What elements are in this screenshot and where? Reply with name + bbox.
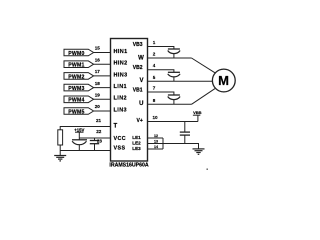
svg-text:+15V: +15V <box>74 127 84 132</box>
svg-text:M: M <box>218 73 229 88</box>
wire LE2 pin13 <box>148 143 164 145</box>
capacitor C3 bootstrap VB1-U <box>168 94 180 96</box>
capacitor C6 ceramic VCC-VSS <box>94 138 96 141</box>
svg-text:VB1: VB1 <box>133 87 143 93</box>
svg-text:8: 8 <box>153 98 156 103</box>
svg-text:T: T <box>114 123 118 129</box>
wire PWM0 to pin15 <box>94 52 111 54</box>
svg-text:PWM4: PWM4 <box>68 98 84 104</box>
svg-text:LIN1: LIN1 <box>114 84 128 90</box>
wire LE tie bracket <box>162 138 164 149</box>
capacitor C2 bootstrap VB2-V <box>168 71 180 73</box>
wire V+ pin10 <box>148 121 198 123</box>
svg-text:21: 21 <box>96 118 102 123</box>
wire T pin21 <box>60 127 110 130</box>
svg-text:20: 20 <box>95 104 101 109</box>
svg-text:VB2: VB2 <box>133 65 143 71</box>
ground (left) <box>54 155 66 157</box>
wire VB2 pin4 <box>148 70 174 73</box>
wire VB1 pin7 <box>148 92 174 95</box>
ground (right) <box>193 148 205 150</box>
wire U diagonal to motor <box>192 89 216 105</box>
svg-text:LE3: LE3 <box>132 146 141 151</box>
resistor R1 <box>58 130 63 145</box>
svg-text:15: 15 <box>95 46 101 51</box>
svg-text:17: 17 <box>95 69 101 74</box>
flag PWM2 <box>64 73 94 80</box>
wire resistor to ground <box>59 145 61 156</box>
svg-text:LE1: LE1 <box>132 135 141 140</box>
svg-text:13: 13 <box>154 140 158 144</box>
wire VCC pin22 <box>79 137 110 139</box>
svg-text:14: 14 <box>154 145 158 149</box>
svg-text:16: 16 <box>95 57 101 62</box>
wire PWM5 to pin20 <box>94 110 111 112</box>
svg-text:U: U <box>139 101 143 107</box>
svg-text:HIN1: HIN1 <box>114 49 128 55</box>
svg-text:LIN2: LIN2 <box>114 96 128 102</box>
flag PWM3 <box>64 84 94 91</box>
svg-text:PWM0: PWM0 <box>68 51 84 57</box>
svg-text:HIN3: HIN3 <box>114 72 128 78</box>
+15V supply terminal <box>75 131 84 133</box>
svg-text:1: 1 <box>153 40 156 45</box>
wire VB3 pin1 <box>148 47 174 50</box>
svg-text:10: 10 <box>152 115 158 120</box>
svg-text:12: 12 <box>154 134 158 138</box>
VBB supply terminal <box>197 115 199 121</box>
svg-text:7: 7 <box>153 86 156 91</box>
svg-text:V+: V+ <box>137 118 143 124</box>
svg-text:2: 2 <box>153 52 156 57</box>
svg-text:IRAMS16UP60A: IRAMS16UP60A <box>109 162 148 168</box>
flag PWM0 <box>64 49 94 56</box>
svg-text:PWM3: PWM3 <box>68 86 84 92</box>
wire PWM4 to pin19 <box>94 98 111 100</box>
capacitor C1 bootstrap VB3-W <box>168 48 180 50</box>
wire LE3 pin14 <box>148 148 164 150</box>
svg-text:PWM1: PWM1 <box>68 63 84 69</box>
capacitor C4 bus <box>184 122 186 133</box>
flag PWM5 <box>64 108 94 115</box>
motor M1 <box>212 69 235 92</box>
svg-text:VBB: VBB <box>193 110 202 115</box>
svg-text:4: 4 <box>153 63 156 68</box>
wire PWM1 to pin16 <box>94 63 111 65</box>
wire W diagonal to motor <box>192 58 216 73</box>
flag PWM4 <box>64 96 94 103</box>
wire U pin8 <box>148 103 192 105</box>
wire LE1 pin12 <box>148 137 164 139</box>
flag PWM1 <box>64 61 94 68</box>
svg-text:18: 18 <box>95 81 101 86</box>
wire W pin2 <box>148 57 192 59</box>
wire PWM3 to pin18 <box>94 87 111 89</box>
svg-text:5: 5 <box>153 75 156 80</box>
svg-text:19: 19 <box>95 93 101 98</box>
wire VSS pin23 rail <box>60 150 110 152</box>
svg-text:PWM2: PWM2 <box>68 74 84 80</box>
node speck artifact <box>207 169 208 170</box>
capacitor C5 electrolytic on +15V <box>72 139 87 141</box>
svg-text:HIN2: HIN2 <box>114 61 128 67</box>
svg-text:LIN3: LIN3 <box>114 107 128 113</box>
svg-text:VSS: VSS <box>114 146 126 152</box>
svg-text:VB3: VB3 <box>133 42 143 48</box>
wire V pin5 to motor <box>148 80 213 82</box>
svg-text:VCC: VCC <box>114 136 127 142</box>
svg-text:22: 22 <box>96 129 102 134</box>
svg-text:LE2: LE2 <box>132 141 141 146</box>
svg-text:W: W <box>138 55 144 61</box>
IC U1 IRAMS16UP60A body <box>111 39 148 162</box>
svg-text:V: V <box>139 78 143 84</box>
wire PWM2 to pin17 <box>94 75 111 77</box>
svg-text:PWM5: PWM5 <box>68 109 84 115</box>
wire LE tie to ground <box>163 144 199 149</box>
svg-text:23: 23 <box>97 139 103 144</box>
